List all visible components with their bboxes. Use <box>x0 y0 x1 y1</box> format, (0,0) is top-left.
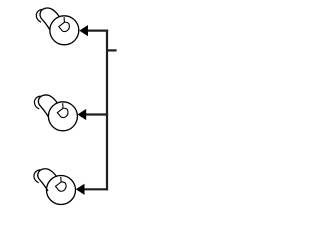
lamp L3 glass (bottom bulb) <box>47 176 76 205</box>
wire: stub to right <box>107 49 117 51</box>
wire: bottom horizontal <box>85 188 109 190</box>
lamp L2 glass (middle bulb) <box>48 102 77 131</box>
arrowhead to L1 <box>79 25 88 36</box>
lamp L1 glass (top bulb) <box>50 16 79 45</box>
wire: middle horizontal <box>86 113 108 115</box>
lamp L1 screw base <box>40 8 59 30</box>
wire: right vertical bus <box>106 30 108 191</box>
lamp L2 cap arc <box>34 96 40 109</box>
lamp L3 cap arc <box>34 170 40 183</box>
arrowhead to L2 <box>78 109 87 120</box>
lamp L2 screw base <box>38 95 57 117</box>
wire: top horizontal from arrow to corner <box>88 30 109 32</box>
arrowhead to L3 <box>76 184 85 195</box>
lamp L3 screw base <box>38 169 57 191</box>
lamp L1 cap arc <box>36 9 42 22</box>
